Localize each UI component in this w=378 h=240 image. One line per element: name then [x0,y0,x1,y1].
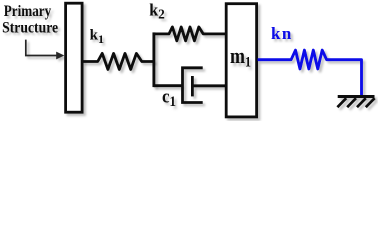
spring kn (blue) with wire to ground [258,50,362,95]
arrow into primary structure [26,40,65,60]
ground hatch 3 [357,98,366,107]
svg-text:kn: kn [271,24,293,43]
damper cylinder [183,68,203,103]
spring k2 (top branch) [154,27,226,41]
node bar (left junction of parallel branch) [152,32,155,87]
ground [337,97,374,108]
svg-text:Primary: Primary [4,4,52,21]
damper c1 (bottom branch) [154,68,226,103]
ground hatch 2 [347,98,356,107]
wall (primary structure) [66,3,83,112]
ground hatch 1 [337,98,346,107]
damper piston [191,76,194,96]
piston rod wire [192,84,226,87]
ground hatch 4 [366,98,375,107]
spring k1 [82,53,154,69]
ground bar [338,95,375,98]
wire to damper [154,84,183,87]
mass m1 box [226,4,256,117]
label "Primary Structure" [2,4,58,37]
svg-text:Structure: Structure [2,20,58,37]
